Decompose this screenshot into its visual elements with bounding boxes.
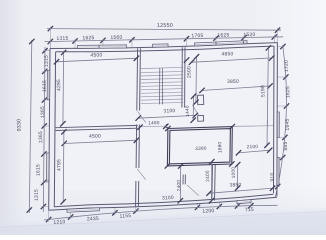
extension line bottom <box>48 210 50 222</box>
tick left col #5 <box>41 151 46 156</box>
dim 4850 top-right room <box>191 58 272 62</box>
window right upper <box>277 112 279 138</box>
svg-text:2400: 2400 <box>176 180 181 192</box>
dim 3850 lower <box>208 188 273 193</box>
dimension line top window row <box>45 37 284 42</box>
tick row C #2 <box>68 214 73 219</box>
svg-text:4500: 4500 <box>89 133 101 139</box>
extension line bottom <box>236 200 238 208</box>
svg-text:3380: 3380 <box>195 146 207 151</box>
svg-text:1440: 1440 <box>185 105 190 117</box>
extension line right <box>277 186 280 188</box>
dim 2400 right <box>210 161 212 202</box>
tick row C #6 <box>217 204 222 209</box>
soft-blur filter def <box>0 0 1 1</box>
window left upper <box>47 71 50 100</box>
interior wall short with door <box>184 175 186 185</box>
dimension line left column <box>43 47 45 212</box>
svg-text:3100: 3100 <box>163 108 175 114</box>
svg-text:9330: 9330 <box>16 119 22 132</box>
svg-text:3100: 3100 <box>162 195 174 202</box>
tick right col #4 <box>282 135 287 140</box>
tick right col #5 <box>280 155 285 160</box>
svg-text:1315: 1315 <box>34 189 40 201</box>
svg-text:1615: 1615 <box>35 164 41 176</box>
dimension line bottom row <box>44 205 278 220</box>
svg-text:1880: 1880 <box>217 141 222 153</box>
svg-text:1155: 1155 <box>119 213 131 220</box>
thin partition stub <box>267 120 269 127</box>
extension line top <box>49 39 51 49</box>
extension line left <box>42 153 49 155</box>
svg-text:2435: 2435 <box>87 216 99 223</box>
svg-text:12550: 12550 <box>157 23 173 29</box>
svg-text:1365: 1365 <box>38 131 44 143</box>
dimension line right column <box>275 45 286 197</box>
svg-text:1365: 1365 <box>40 106 46 118</box>
svg-text:1200: 1200 <box>202 208 214 215</box>
extension line bottom <box>135 206 137 213</box>
interior wall below top-left room <box>56 125 138 127</box>
extension line left <box>42 99 49 101</box>
tick right col #6 <box>275 184 280 189</box>
svg-text:715: 715 <box>245 207 254 213</box>
tick box TL <box>165 126 170 131</box>
tick left col #4 <box>42 123 47 128</box>
svg-text:2100: 2100 <box>247 144 259 149</box>
svg-text:4795: 4795 <box>56 159 62 171</box>
window bottom-right <box>237 200 251 204</box>
interior wall below box <box>214 165 217 201</box>
svg-text:1210: 1210 <box>53 219 65 226</box>
window bottom-left <box>67 208 100 212</box>
dim 1000 <box>236 164 238 189</box>
extension line top <box>273 35 275 43</box>
tick row B #1 <box>48 39 53 44</box>
tick left col #7 <box>41 204 46 209</box>
tick row C #1 <box>46 217 51 222</box>
tick box BL <box>165 163 170 168</box>
svg-text:4850: 4850 <box>221 51 233 57</box>
extension line top <box>185 37 187 47</box>
tick row C #5 <box>195 205 200 210</box>
svg-text:1705: 1705 <box>191 33 203 39</box>
extension line bottom <box>114 207 116 215</box>
tick row C #4 <box>133 208 138 213</box>
svg-text:1480: 1480 <box>148 120 160 125</box>
tick left col #1 <box>42 48 47 53</box>
dim 3850 upper <box>201 86 270 91</box>
tick right end 12550 <box>275 28 280 33</box>
dim 4500 top-left room <box>56 58 137 62</box>
tick left col #6 <box>41 180 46 185</box>
window right lower <box>277 158 279 186</box>
tick row C #3 <box>112 210 117 215</box>
window top-left double <box>78 45 127 49</box>
dim 4795 vertical <box>62 131 65 202</box>
svg-text:1720: 1720 <box>284 60 290 72</box>
tick 9330 top <box>29 39 34 44</box>
outer wall top <box>50 43 277 49</box>
extension line left <box>43 50 50 52</box>
tick left col #3 <box>42 97 47 102</box>
dim 2500 stairs <box>195 56 198 103</box>
svg-text:4500: 4500 <box>90 52 102 58</box>
tick right col #3 <box>284 103 289 108</box>
bold box (stove) 3380x1880 <box>167 127 232 166</box>
svg-text:1315: 1315 <box>44 55 50 67</box>
tick row B #7 <box>241 35 246 40</box>
svg-text:910: 910 <box>269 172 275 181</box>
interior wall stair-left / room divider <box>136 48 139 110</box>
tick row B #2 <box>72 38 77 43</box>
thin partition box to right wall <box>232 125 273 128</box>
outer wall right <box>276 43 279 197</box>
extension line top <box>243 35 245 44</box>
extension line right <box>278 46 285 48</box>
svg-text:4295: 4295 <box>56 79 62 91</box>
interior wall stair-right <box>184 47 186 107</box>
svg-text:1520: 1520 <box>243 32 255 38</box>
svg-text:1645: 1645 <box>285 118 291 130</box>
window top-center <box>153 44 169 47</box>
svg-text:3850: 3850 <box>229 182 241 188</box>
svg-text:1625: 1625 <box>285 86 291 98</box>
tick 9330 bottom <box>27 207 32 212</box>
svg-text:2500: 2500 <box>186 66 192 78</box>
extension line bottom <box>218 202 220 209</box>
tick row B #4 <box>129 37 134 42</box>
tick row C #8 <box>248 203 253 208</box>
extension line left <box>41 206 48 208</box>
tick 1480 right <box>163 124 168 129</box>
extension line right <box>277 157 285 159</box>
staircase steps <box>141 67 183 68</box>
svg-text:5190: 5190 <box>260 85 266 97</box>
svg-text:3850: 3850 <box>227 79 239 85</box>
extension line right <box>278 76 288 78</box>
dim 2100 <box>238 150 270 153</box>
window left lower <box>47 153 50 181</box>
svg-text:1315: 1315 <box>56 36 68 42</box>
extension line top <box>131 38 133 49</box>
dim 4295 vertical <box>62 52 65 125</box>
extension line bottom <box>70 209 72 220</box>
extension line right <box>277 136 287 138</box>
extension line bottom <box>196 203 198 209</box>
tick box BR <box>229 161 234 166</box>
outer wall left <box>49 49 50 211</box>
extension line left <box>43 70 50 72</box>
extension line left <box>42 125 49 127</box>
extension line right <box>278 105 289 107</box>
door stub upper <box>197 95 203 105</box>
svg-text:1625: 1625 <box>82 35 94 41</box>
tick row B #6 <box>213 35 218 40</box>
outer wall bottom <box>49 197 277 210</box>
dimension line 12550 top row <box>47 29 281 31</box>
door stub lower <box>198 116 204 122</box>
extension line top <box>74 39 76 49</box>
window top-right double <box>195 41 248 46</box>
tick right col #1 <box>280 44 285 49</box>
dim 2400 left <box>179 166 181 202</box>
door leaf lower <box>187 185 199 196</box>
extension line left <box>41 182 48 184</box>
dim 1440 <box>192 96 194 121</box>
tick row B #8 <box>272 34 277 39</box>
extension line bottom <box>250 199 252 208</box>
tick right col #2 <box>283 74 288 79</box>
tick row B #5 <box>184 36 189 41</box>
extension line top <box>102 38 104 49</box>
tick left end 12550 <box>48 26 53 31</box>
door leaf upper hall <box>192 105 198 115</box>
tick 1480 left <box>137 125 142 130</box>
dim 4500 bottom-left room <box>64 140 138 143</box>
svg-text:1625: 1625 <box>217 32 229 38</box>
tick row C #7 <box>235 203 240 208</box>
dim 5190 <box>267 47 268 146</box>
svg-text:1560: 1560 <box>110 35 122 41</box>
svg-text:865: 865 <box>283 141 289 150</box>
svg-text:2400: 2400 <box>205 170 210 182</box>
tick left col #2 <box>42 69 47 74</box>
extension corner right to 12550 <box>276 28 278 43</box>
dim 3100 hall <box>137 115 195 118</box>
tick box TR <box>230 124 235 129</box>
extension corner left to 12550 <box>49 27 51 49</box>
extension line top <box>215 36 217 46</box>
tick row B #3 <box>100 38 105 43</box>
svg-text:1000: 1000 <box>231 167 236 179</box>
dimension line 9330 column <box>29 40 32 213</box>
